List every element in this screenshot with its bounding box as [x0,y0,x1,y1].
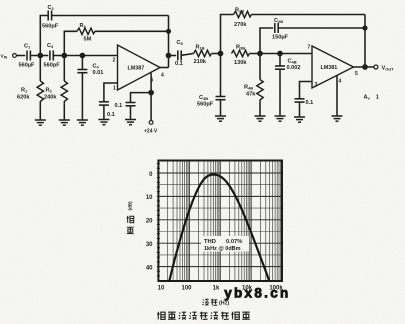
ground R3 [59,120,70,125]
node B [62,53,66,57]
x axis title 频 [202,299,208,305]
grid major vertical decades [189,161,251,282]
resistor R1 [39,56,41,82]
y axis title 增 [127,216,134,223]
wire R2B to output riser [252,14,366,16]
wire pin 3 to cap [300,82,313,99]
y axis title 益 [127,227,134,234]
resistor R2B [234,11,252,17]
wire node B to C4 node and op-amp pin 2 [64,55,117,57]
ground C4B [275,116,286,121]
wire output [160,67,169,69]
caption 率 [221,312,229,320]
node output/C5 [166,53,170,57]
caption 响 [231,312,239,320]
wire C2 feedback riser [40,16,48,56]
node R2 join [167,30,171,34]
ground R4B [255,116,266,121]
grid minor horizontal [158,185,282,255]
node E [278,51,282,55]
wire C2 to output riser [52,15,169,17]
caption 滤 [179,312,187,319]
wire pin 4 ground [336,75,338,116]
wire R2B feedback riser [221,15,234,54]
node VOUT terminal [374,65,378,69]
wire C2B feedback riser [260,28,273,54]
wire to bypass cap 2 [131,93,152,103]
capacitor C4 [81,56,83,70]
capacitor C1 [26,51,28,61]
text box blank [201,236,249,252]
response curve [169,175,269,282]
capacitor C3 [40,55,48,57]
wire R2 feedback riser [64,31,77,55]
graph frame [158,161,282,282]
wire output riser U2 [364,15,366,68]
node +24V terminal [149,121,153,125]
wire C1 to node A [30,55,40,57]
caption 波 [189,312,197,319]
wire VIN to C1 [16,55,25,57]
capacitor C3B [220,54,222,97]
ground C3B [215,116,226,121]
ground 0.1 U2 [294,117,305,122]
stage 2 labels [194,8,395,108]
capacitor 0.1 pin1 [99,101,109,103]
caption 音 [168,312,176,319]
node C4 junction [80,53,84,57]
resistor R3B [232,50,250,56]
x axis title 率 [211,299,218,306]
wire output riser [168,16,170,68]
grid major horizontal [158,173,282,267]
resistor R4B [259,54,261,80]
axis tick marks left edge [157,164,160,276]
resistor R3 [63,56,65,82]
ground pin1 cap [98,120,109,125]
caption 频 [211,312,219,319]
grid minor vertical [168,161,281,282]
wire C3 to node B [53,55,64,57]
capacitor 0.1 U2 [295,98,305,100]
resistor R1B [194,50,212,56]
wire to C5 [169,55,177,57]
node A [38,53,42,57]
wire C5 to R1B [181,54,193,56]
node output U2 [363,65,367,69]
resistor R2 [77,28,95,34]
node C [218,51,222,55]
node C2B join [363,26,367,30]
node D [258,51,262,55]
op-amp U2 triangle [312,46,354,88]
ground bypass cap [125,120,136,125]
capacitor C2B [274,23,276,33]
node VIN terminal [13,54,17,58]
capacitor C5 [177,51,179,61]
node supply junction [149,91,153,95]
scan noise overlay [0,0,1,1]
caption 应 [242,312,250,319]
wire C2B to output riser [278,27,365,29]
ground C4 [77,120,88,125]
stage 1 labels [1,5,184,134]
op-amp U1 triangle [118,45,161,90]
wire pin 1 to bypass cap [104,83,118,102]
wire R2 to output riser [95,30,169,32]
wire pin 6 supply [150,73,152,121]
wire node D to node E [260,53,312,55]
ground R1 [35,120,46,125]
capacitor C2 [47,11,49,21]
ground pin4 [332,116,343,121]
wire output U2 [354,66,374,68]
capacitor C4B [279,54,281,67]
caption 话 [157,312,165,320]
wire R1B to node C [212,53,221,55]
wire R3B to node D [250,53,261,55]
capacitor 0.1 supply bypass [126,102,136,104]
caption 器 [200,312,208,320]
